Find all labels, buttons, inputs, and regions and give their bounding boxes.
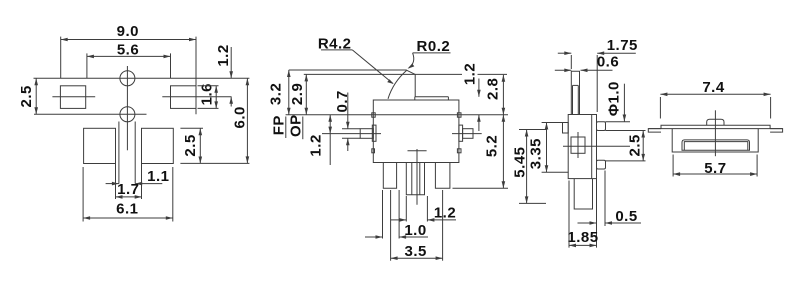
svg-text:6.0: 6.0 xyxy=(232,106,249,128)
extension leg2 left xyxy=(405,196,407,222)
recess outer rect xyxy=(682,140,750,150)
svg-text:0.5: 0.5 xyxy=(615,208,637,225)
svg-text:1.2: 1.2 xyxy=(215,44,232,66)
tab center line right xyxy=(452,133,482,135)
svg-text:1.1: 1.1 xyxy=(147,168,169,185)
svg-text:1.2: 1.2 xyxy=(307,134,324,156)
lower notch right xyxy=(457,149,461,153)
extension FP level xyxy=(289,69,407,71)
svg-text:2.5: 2.5 xyxy=(18,85,35,107)
boss lug lower xyxy=(597,160,606,169)
boss lug upper xyxy=(597,122,606,131)
svg-text:Φ1.0: Φ1.0 xyxy=(605,81,622,116)
vertical center line xyxy=(126,66,128,150)
boss circle lower xyxy=(120,107,135,122)
svg-text:9.0: 9.0 xyxy=(117,23,139,40)
side view: terminal leg xyxy=(574,179,592,209)
terminal leg 1 xyxy=(383,163,396,189)
extension OP level xyxy=(304,73,462,75)
hole center line horizontal xyxy=(563,145,630,147)
side view: body outline xyxy=(568,115,596,179)
terminal leg 3 xyxy=(435,163,450,189)
svg-text:2.9: 2.9 xyxy=(289,83,306,105)
leg bottom extension xyxy=(453,187,509,189)
svg-text:6.1: 6.1 xyxy=(116,201,138,218)
svg-text:7.4: 7.4 xyxy=(702,79,725,96)
front view: body outline xyxy=(373,100,459,163)
side hole xyxy=(571,137,585,153)
mounting block right xyxy=(142,128,174,163)
pin inner face xyxy=(572,85,574,114)
svg-text:OP: OP xyxy=(288,114,305,137)
terminal tab right xyxy=(463,129,473,139)
lower notch left xyxy=(372,149,375,153)
extension leg2 right xyxy=(426,196,428,222)
plate end tab right xyxy=(770,129,783,133)
svg-text:5.45: 5.45 xyxy=(511,146,528,177)
slot line right xyxy=(134,122,136,184)
top view: housing bar top edge xyxy=(34,77,250,79)
svg-text:3.2: 3.2 xyxy=(268,83,285,105)
center line right pad xyxy=(162,96,231,98)
extension leg3 center xyxy=(442,190,444,261)
svg-text:3.5: 3.5 xyxy=(405,243,427,260)
tab center line left xyxy=(322,133,381,135)
datum notch left xyxy=(372,113,375,117)
side view: actuator pin xyxy=(571,71,579,114)
extension leg1 center xyxy=(390,190,392,261)
top view: housing bar bottom edge xyxy=(34,113,147,115)
gap edge extension right xyxy=(141,164,143,200)
extension line 5.6 right xyxy=(170,53,172,78)
svg-text:0.6: 0.6 xyxy=(597,54,619,71)
boss circle upper xyxy=(120,71,135,86)
center line left pad xyxy=(52,96,95,98)
svg-text:5.2: 5.2 xyxy=(484,135,501,157)
svg-text:2.5: 2.5 xyxy=(182,134,199,156)
terminal pad right xyxy=(171,86,197,109)
pivot plate left xyxy=(372,125,376,141)
body center line xyxy=(416,149,418,205)
plate bend line xyxy=(648,128,782,130)
top view: housing bar right edge xyxy=(195,37,197,115)
center line xyxy=(714,110,716,156)
extension line 5.6 left xyxy=(86,53,88,78)
plate end tab left xyxy=(648,129,661,133)
datum notch right xyxy=(457,113,461,117)
terminal pad left xyxy=(60,86,85,109)
datum line FP/OP xyxy=(286,114,508,116)
mounting block left xyxy=(84,128,116,163)
gap edge extension left xyxy=(115,164,117,200)
recess inner rect xyxy=(684,142,748,151)
svg-text:2.8: 2.8 xyxy=(485,78,502,100)
svg-text:1.2: 1.2 xyxy=(462,63,479,85)
lever arm right edge xyxy=(414,74,416,96)
extension leg1 right xyxy=(398,190,400,239)
svg-text:FP: FP xyxy=(271,115,288,135)
common terminal tab left xyxy=(360,129,373,139)
ledge plate on body top xyxy=(415,96,449,98)
svg-text:2.5: 2.5 xyxy=(626,134,643,156)
hole center line vertical xyxy=(577,132,579,158)
extension leg1 left xyxy=(382,190,384,239)
svg-text:3.35: 3.35 xyxy=(528,138,545,169)
leg 2 inner faces xyxy=(411,163,413,195)
pivot plate right xyxy=(459,125,463,141)
svg-text:1.2: 1.2 xyxy=(434,204,456,221)
lever arm tip cap R0.2 xyxy=(407,70,415,74)
svg-text:1.6: 1.6 xyxy=(199,83,216,105)
svg-text:1.75: 1.75 xyxy=(607,37,638,54)
front bump left xyxy=(563,123,569,134)
actuator dome xyxy=(707,119,724,125)
lever arm left arc R4.2 xyxy=(388,70,407,99)
slot line left xyxy=(118,122,120,184)
body inner face line xyxy=(591,115,593,179)
svg-text:1.85: 1.85 xyxy=(567,229,598,246)
svg-text:1.0: 1.0 xyxy=(404,222,426,239)
extension line 9.0 left xyxy=(60,37,62,78)
terminal leg 2 xyxy=(406,163,424,195)
bottom view: base body xyxy=(672,129,758,152)
bottom view: mounting plate xyxy=(661,125,770,128)
